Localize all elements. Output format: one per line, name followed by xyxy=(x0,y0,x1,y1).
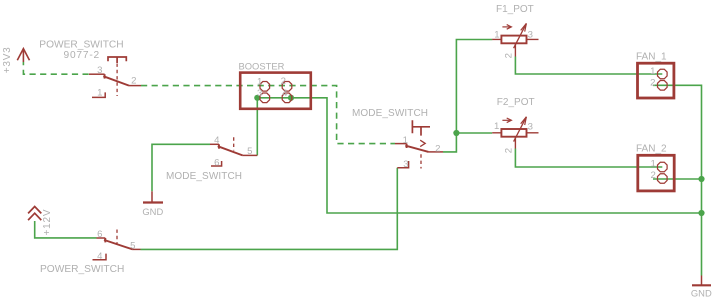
svg-text:1: 1 xyxy=(403,135,408,146)
svg-text:FAN_2: FAN_2 xyxy=(636,143,667,154)
svg-text:4: 4 xyxy=(214,135,220,146)
svg-text:2: 2 xyxy=(504,53,515,58)
svg-text:F2_POT: F2_POT xyxy=(497,97,535,108)
svg-text:1: 1 xyxy=(494,29,499,40)
svg-text:5: 5 xyxy=(130,241,135,252)
svg-text:3: 3 xyxy=(97,65,102,76)
svg-text:GND: GND xyxy=(142,206,163,217)
svg-text:POWER_SWITCH: POWER_SWITCH xyxy=(39,40,123,51)
svg-text:POWER_SWITCH: POWER_SWITCH xyxy=(40,264,124,275)
svg-text:F1_POT: F1_POT xyxy=(496,4,534,15)
svg-text:1: 1 xyxy=(97,88,102,99)
svg-text:+12V: +12V xyxy=(42,209,53,236)
svg-text:4: 4 xyxy=(97,251,103,262)
svg-text:3: 3 xyxy=(528,29,533,40)
svg-text:3: 3 xyxy=(403,159,408,170)
svg-text:GND: GND xyxy=(691,288,712,299)
svg-text:2: 2 xyxy=(650,77,655,88)
svg-text:FAN_1: FAN_1 xyxy=(636,51,667,62)
svg-text:MODE_SWITCH: MODE_SWITCH xyxy=(352,108,428,119)
svg-text:1: 1 xyxy=(257,77,262,88)
svg-text:1: 1 xyxy=(650,66,655,77)
svg-text:3: 3 xyxy=(528,121,533,132)
svg-text:1: 1 xyxy=(494,121,499,132)
svg-text:+3V3: +3V3 xyxy=(2,46,13,73)
svg-text:2: 2 xyxy=(650,170,655,181)
svg-text:2: 2 xyxy=(503,148,514,153)
svg-text:2: 2 xyxy=(281,76,286,87)
svg-text:1: 1 xyxy=(650,158,655,169)
svg-text:BOOSTER: BOOSTER xyxy=(239,60,285,71)
svg-text:5: 5 xyxy=(247,146,252,157)
svg-text:2: 2 xyxy=(131,76,136,87)
svg-text:2: 2 xyxy=(435,143,440,154)
svg-text:6: 6 xyxy=(97,229,102,240)
svg-text:9077-2: 9077-2 xyxy=(64,50,101,61)
svg-text:MODE_SWITCH: MODE_SWITCH xyxy=(166,171,242,182)
svg-text:3: 3 xyxy=(257,88,262,99)
svg-text:6: 6 xyxy=(214,158,219,169)
svg-text:4: 4 xyxy=(282,88,288,99)
